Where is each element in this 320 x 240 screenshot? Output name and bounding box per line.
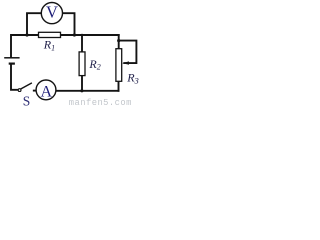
resistor R1 (39, 32, 61, 37)
wire: left vertical + top main wire to R1 (11, 35, 39, 57)
svg-text:V: V (46, 3, 58, 22)
resistor R2 (79, 52, 85, 76)
wire: voltmeter right branch (63, 13, 75, 35)
node: junction voltmeter left (25, 33, 28, 36)
svg-text:manfen5.com: manfen5.com (69, 98, 132, 107)
battery short thick plate (9, 62, 15, 64)
switch S blade (21, 83, 32, 89)
rheostat R3 body (116, 49, 122, 82)
voltmeter U-V circle (41, 3, 62, 24)
rheostat wiper arrowhead (122, 61, 129, 64)
ammeter circle (36, 80, 56, 100)
wire: R3 top lead (118, 35, 120, 49)
svg-text:A: A (41, 83, 53, 100)
node: junction wiper feed (117, 39, 120, 42)
wire: bottom wire ammeter to R3 (56, 90, 119, 92)
node: junction voltmeter right (73, 33, 76, 36)
node: junction R2 bottom (80, 89, 83, 92)
wire: battery bottom lead + switch wire (11, 64, 18, 89)
wire: R2 top lead (81, 35, 83, 52)
switch S pivot (18, 89, 21, 92)
node: junction R2 top (81, 34, 84, 37)
wire: R3 bottom lead (118, 81, 120, 91)
battery long plate (4, 57, 19, 59)
svg-text:S: S (23, 93, 31, 107)
wire: rheostat wiper feed (right side) (119, 41, 137, 64)
wire: main top wire from R1 to R3 corner (61, 34, 119, 36)
wire: voltmeter left branch (27, 13, 41, 35)
wire: R2 bottom lead (81, 76, 83, 91)
wire: ammeter left lead (34, 90, 36, 92)
